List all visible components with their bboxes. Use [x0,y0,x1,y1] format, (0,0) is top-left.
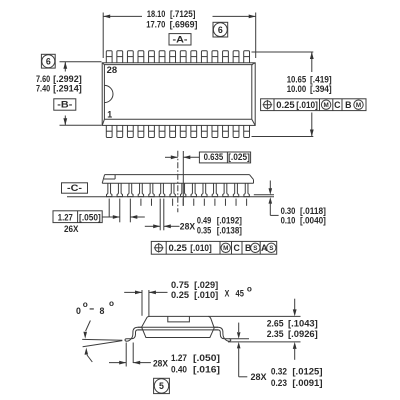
svg-text:0.25: 0.25 [276,100,295,110]
svg-text:M: M [323,102,328,109]
svg-text:[.0926]: [.0926] [288,329,318,339]
svg-text:0: 0 [76,306,81,316]
svg-text:[.016]: [.016] [193,364,220,374]
svg-text:[.1043]: [.1043] [288,318,318,328]
end view package body outline [142,316,215,337]
top view: top row of 14 pins [106,51,249,63]
lead centerline ticks below seating plane [109,199,246,231]
svg-text:0.30: 0.30 [281,206,296,216]
svg-text:-A-: -A- [173,35,188,45]
svg-text:0.635: 0.635 [204,152,224,162]
svg-text:1.27: 1.27 [58,212,73,222]
extension line for 0.635 dim [182,151,184,206]
svg-text:7.40: 7.40 [36,84,50,94]
svg-text:0.49: 0.49 [197,216,211,226]
svg-text:X: X [225,288,230,298]
svg-text:[.010]: [.010] [194,290,218,300]
svg-text:C: C [234,243,241,253]
dimension 18.10/17.70 overall length (top) [103,9,256,58]
dimension 0.32/0.23 lead thickness [237,323,323,388]
svg-text:0.40: 0.40 [171,364,187,374]
svg-text:5: 5 [159,381,164,391]
svg-text:[.6969]: [.6969] [170,19,198,29]
svg-text:0.75: 0.75 [171,280,189,290]
svg-text:6: 6 [46,56,51,66]
seating plane line (datum C) [67,196,274,198]
dimension 0.30/0.10 standoff (right) [254,181,326,226]
svg-text:8: 8 [100,306,105,316]
svg-text:45: 45 [236,288,244,298]
svg-text:26X: 26X [64,224,79,234]
svg-text:7.60: 7.60 [36,74,50,84]
svg-text:0.25: 0.25 [169,243,188,253]
svg-text:-C-: -C- [67,183,82,193]
svg-text:[.0138]: [.0138] [217,226,242,236]
svg-text:S: S [253,245,257,252]
dimension 0-8 degree lead foot angle [76,299,122,362]
svg-text:28X: 28X [180,221,195,231]
dimension 10.65/10.00 overall width (right) [252,52,332,137]
dimension 7.60/7.40 body width (left) [36,62,102,126]
dimension 2.65/2.35 overall height [267,299,318,360]
svg-text:[.2914]: [.2914] [53,84,82,94]
end view leadframe lines through body [138,327,218,330]
svg-text:6: 6 [218,25,223,35]
svg-text:10.00: 10.00 [287,84,307,94]
svg-text:[.010]: [.010] [190,243,212,253]
side view package body outline [102,175,253,184]
dimension 1.27 pitch (boxed basic dim) [53,211,145,234]
left gull-wing lead [125,327,142,341]
svg-text:[.0091]: [.0091] [292,378,322,388]
svg-text:0.35: 0.35 [197,226,211,236]
svg-text:[.0118]: [.0118] [300,206,326,216]
svg-text:o: o [109,299,114,308]
svg-text:1: 1 [107,110,112,120]
side view: 14 gull-wing leads [107,183,250,196]
svg-text:17.70: 17.70 [146,19,165,29]
dimension 0.49/0.35 lead width [145,216,242,236]
svg-text:[.2992]: [.2992] [53,74,82,84]
svg-text:0.23: 0.23 [271,378,287,388]
svg-text:S: S [269,245,273,252]
svg-text:0.32: 0.32 [271,366,287,376]
svg-text:28X: 28X [153,359,168,369]
svg-text:[.0192]: [.0192] [217,216,242,226]
note flag 5 [154,378,170,393]
svg-text:[.050]: [.050] [79,212,101,222]
note flag 6 (top) [213,22,228,37]
svg-text:M: M [356,102,361,109]
package center line (dash-dot) [177,151,179,213]
svg-text:o: o [247,284,252,293]
svg-text:o: o [83,300,88,309]
svg-text:28: 28 [107,65,118,75]
svg-text:28X: 28X [251,372,267,382]
svg-text:C: C [334,100,341,110]
svg-text:[.029]: [.029] [194,280,218,290]
datum -A- label [169,34,191,45]
svg-text:[.0040]: [.0040] [300,216,326,226]
svg-text:1.27: 1.27 [171,353,187,363]
pin 1 index notch (semicircle) [104,85,113,102]
side view pin-1 end chamfer notch [104,175,115,179]
svg-text:2.35: 2.35 [267,329,284,339]
svg-text:0.10: 0.10 [281,216,296,226]
index mark notch on body top [168,316,190,322]
svg-text:[.419]: [.419] [310,74,332,84]
svg-text:[.394]: [.394] [310,84,332,94]
top view package body outer outline [102,63,255,126]
extension lines body top and seating plane (right) [208,316,300,342]
dimension 0.75/0.25 x 45 deg chamfer [124,280,252,316]
svg-text:-: - [89,304,95,314]
dimension 0.635 (center to lead) boxed [165,152,251,163]
top view: bottom row of 14 pins [106,125,249,137]
datum -C- label [62,183,88,193]
note flag 6 (left) [41,54,55,68]
svg-text:10.65: 10.65 [287,74,307,84]
svg-text:-B-: -B- [57,100,72,110]
svg-text:18.10: 18.10 [147,9,165,19]
top view package body inner (top-surface) outline with corner bevels [102,63,255,126]
svg-text:B: B [345,100,351,110]
feature control frame (position tol, top view) [261,99,366,111]
right gull-wing lead [214,327,231,341]
feature control frame (position tol, side view) [151,241,276,254]
svg-text:[.010]: [.010] [296,100,318,110]
svg-text:[.025]: [.025] [228,152,250,162]
svg-text:[.7125]: [.7125] [170,9,195,19]
svg-text:[.050]: [.050] [193,353,220,363]
svg-text:2.65: 2.65 [267,318,284,328]
dimension 1.27/0.40 lead foot length [109,343,220,375]
datum -B- label [54,99,76,110]
svg-text:0.25: 0.25 [171,290,189,300]
svg-text:M: M [223,245,228,252]
svg-text:[.0125]: [.0125] [292,366,322,376]
